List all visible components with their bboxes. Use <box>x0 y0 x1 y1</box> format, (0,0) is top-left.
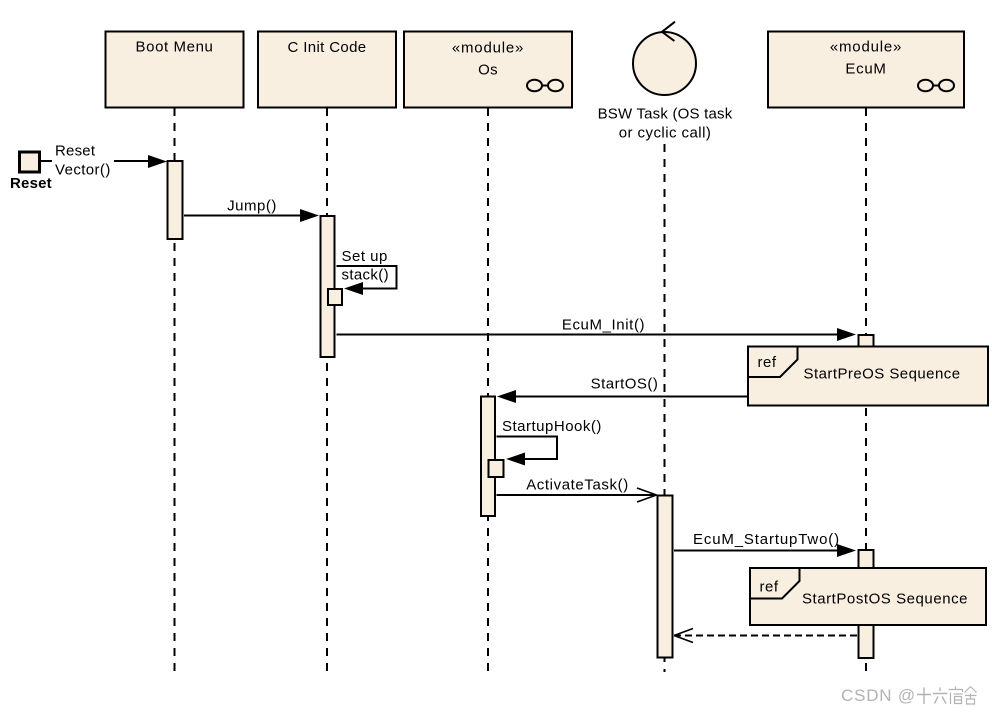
svg-text:ActivateTask(): ActivateTask() <box>526 477 629 494</box>
watermark glyph su (lodge) <box>949 687 963 705</box>
watermark glyph she (house) <box>965 687 977 705</box>
activation bar EcuM second <box>859 550 874 658</box>
actor box C Init Code <box>258 32 396 108</box>
nested activation C Init (set up stack) <box>328 289 342 305</box>
svg-text:Boot Menu: Boot Menu <box>136 39 214 56</box>
svg-text:C Init Code: C Init Code <box>288 39 367 56</box>
control classifier circle BSW Task <box>633 32 696 95</box>
return message dashed <box>674 629 857 643</box>
actor box Boot Menu <box>106 32 244 108</box>
svg-text:«module»: «module» <box>452 40 524 57</box>
svg-text:StartupHook(): StartupHook() <box>502 418 602 435</box>
message EcuM_Init() <box>337 317 857 342</box>
module icon Os (two linked ellipses) <box>527 80 563 92</box>
watermark glyph liu (six) <box>933 688 948 704</box>
self message StartupHook() <box>497 418 602 466</box>
activation bar Boot Menu <box>168 161 183 239</box>
svg-text:Jump(): Jump() <box>227 198 277 215</box>
ref fragment StartPreOS Sequence <box>748 347 988 406</box>
module icon EcuM (two linked ellipses) <box>918 80 954 92</box>
svg-text:stack(): stack() <box>342 267 389 284</box>
message Reset Vector() <box>41 142 168 179</box>
control circle arrow <box>662 22 675 41</box>
lifeline Boot Menu <box>174 108 176 672</box>
activation bar Os <box>481 397 495 517</box>
watermark CSDN <box>841 686 916 705</box>
actor box EcuM module <box>768 32 964 108</box>
actor box Os module <box>404 32 572 108</box>
ref fragment StartPostOS Sequence <box>750 568 986 625</box>
svg-text:EcuM: EcuM <box>845 61 886 78</box>
svg-text:StartOS(): StartOS() <box>591 376 659 393</box>
svg-text:ref: ref <box>758 354 777 371</box>
svg-text:Reset: Reset <box>55 143 96 160</box>
activation bar C Init Code <box>321 216 335 357</box>
svg-text:BSW Task (OS task: BSW Task (OS task <box>598 106 733 123</box>
svg-text:Os: Os <box>478 62 498 79</box>
object Reset small box <box>20 152 40 172</box>
svg-text:StartPreOS Sequence: StartPreOS Sequence <box>804 366 961 383</box>
activation bar EcuM first <box>859 335 874 352</box>
nested activation Os (startup hook) <box>489 460 504 477</box>
activation bar BSW Task <box>658 496 673 658</box>
svg-text:Vector(): Vector() <box>55 162 111 179</box>
message StartOS() <box>497 376 747 404</box>
svg-text:CSDN @: CSDN @ <box>841 686 916 705</box>
lifeline C Init Code <box>326 108 328 672</box>
message EcuM_StartupTwo() <box>674 531 856 557</box>
message Jump() <box>184 198 319 223</box>
svg-text:Set up: Set up <box>342 248 388 265</box>
lifeline BSW Task <box>664 144 666 672</box>
self message Set up stack() <box>337 248 397 295</box>
lifeline Os <box>487 108 489 672</box>
svg-text:ref: ref <box>760 579 779 596</box>
svg-text:EcuM_Init(): EcuM_Init() <box>562 317 645 334</box>
svg-text:EcuM_StartupTwo(): EcuM_StartupTwo() <box>693 531 840 548</box>
svg-text:«module»: «module» <box>830 39 902 56</box>
lifeline EcuM <box>865 108 867 672</box>
svg-text:StartPostOS Sequence: StartPostOS Sequence <box>802 591 968 608</box>
watermark glyph shi (ten) <box>917 688 931 705</box>
svg-text:or cyclic call): or cyclic call) <box>619 125 712 142</box>
message ActivateTask() (async open arrow) <box>497 477 657 503</box>
svg-text:Reset: Reset <box>10 175 52 192</box>
